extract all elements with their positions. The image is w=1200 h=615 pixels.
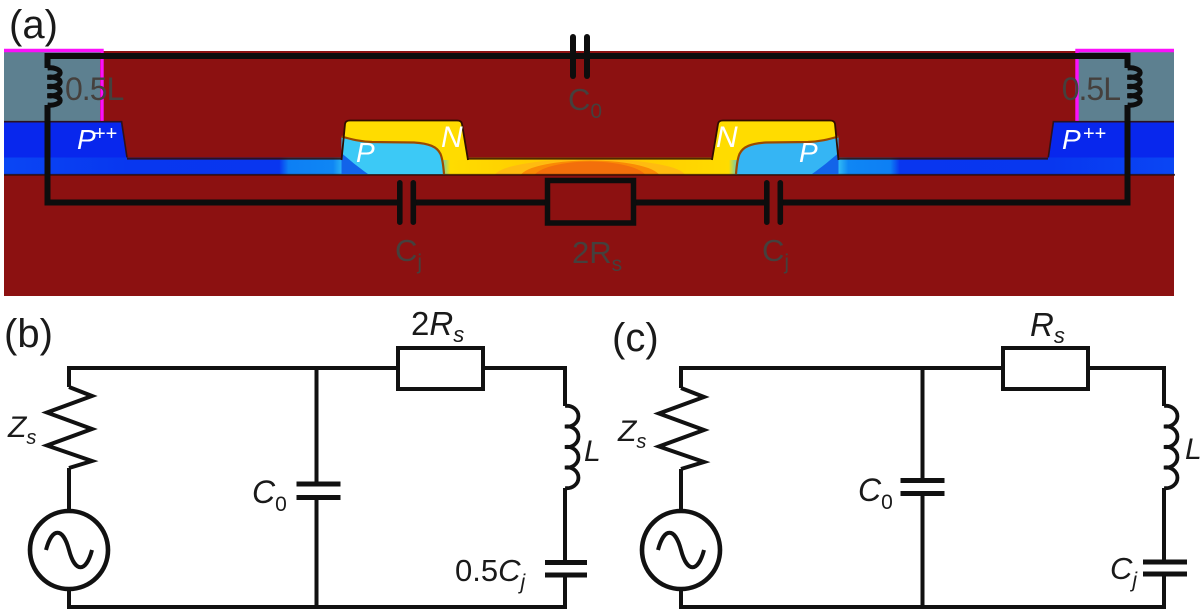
svg-text:(a): (a)	[9, 3, 58, 47]
svg-text:0.5L: 0.5L	[65, 71, 123, 107]
wire: (b) right vertical top	[563, 366, 567, 406]
svg-text:P: P	[799, 137, 818, 168]
resistor 2Rs (b) box	[398, 348, 483, 389]
P++ region right	[1048, 121, 1174, 159]
wire: (b) right vertical bottom	[563, 578, 567, 610]
wire: (b) C0 branch upper	[315, 366, 319, 482]
wire: (b) below source	[67, 589, 71, 609]
wire: (c) right vertical bottom	[1162, 577, 1166, 610]
source AC (b)	[30, 511, 108, 589]
wire: (b) right vertical mid	[563, 488, 567, 560]
P++ region left	[4, 121, 128, 159]
wire: left vertical lower	[45, 105, 51, 205]
wire: (c) below source	[679, 589, 683, 609]
mesa right (rib, mirrored)	[712, 121, 839, 175]
capacitor Cj right (device)	[764, 180, 783, 225]
mesa left (rib)	[342, 121, 469, 175]
source AC (c)	[642, 511, 720, 589]
wire: (c) C0 branch upper	[921, 366, 925, 478]
magenta outline left pad	[4, 51, 102, 122]
svg-text:Cj: Cj	[1110, 551, 1138, 592]
capacitor C0 (device, top)	[570, 34, 590, 79]
wire: (c) bottom bus	[679, 605, 1166, 609]
inductor L (c)	[1164, 406, 1177, 488]
svg-text:(c): (c)	[612, 316, 659, 360]
resistor Rs (c) box	[1003, 348, 1088, 389]
resistor Zs (b) zigzag	[47, 387, 92, 468]
metal pad right (gray)	[1078, 51, 1174, 121]
wire: (c) C0 branch lower	[921, 496, 925, 609]
metal pad left (gray)	[4, 51, 100, 121]
svg-text:C0: C0	[858, 472, 893, 514]
slab bottom boundary line	[4, 174, 1175, 176]
inductor 0.5L right	[1128, 68, 1141, 105]
svg-text:2Rs: 2Rs	[411, 305, 464, 347]
wire: (b) top bus	[67, 366, 567, 370]
svg-text:(b): (b)	[4, 312, 53, 356]
n++ implant orange halo	[495, 159, 685, 197]
svg-text:P: P	[1062, 124, 1081, 155]
svg-text:0.5L: 0.5L	[1062, 71, 1120, 107]
wire: top bus	[45, 53, 1131, 59]
resistor Zs (c) zigzag	[659, 388, 704, 469]
svg-text:++: ++	[1083, 123, 1106, 145]
wire: (c) right vertical mid	[1162, 488, 1166, 560]
svg-text:C0: C0	[252, 474, 287, 516]
magenta outline right pad	[1077, 51, 1174, 122]
capacitor Cj left (device)	[397, 180, 416, 225]
svg-text:0.5Cj: 0.5Cj	[455, 553, 527, 594]
wire: right vertical	[1125, 53, 1131, 68]
wire: bottom bus segments	[45, 200, 400, 206]
svg-text:L: L	[584, 435, 601, 468]
capacitor C0 (c) plates	[901, 478, 945, 496]
wire: right vertical lower	[1125, 105, 1131, 205]
capacitor Cj (c) plates	[1143, 560, 1187, 577]
svg-text:Rs: Rs	[1030, 306, 1065, 348]
circuit overlay (a)	[45, 53, 1141, 205]
device substrate (dark red)	[4, 51, 1174, 296]
inductor 0.5L left	[48, 68, 61, 105]
svg-text:++: ++	[94, 123, 117, 145]
wire: (c) right vertical top	[1162, 366, 1166, 406]
wire: (c) left vertical top	[679, 366, 683, 388]
svg-text:Zs: Zs	[7, 411, 36, 449]
svg-text:N: N	[716, 121, 738, 154]
wire: (b) C0 branch lower	[315, 500, 319, 609]
inductor L (b)	[565, 406, 578, 488]
wire: (b) bottom bus	[67, 605, 567, 609]
capacitor C0 (b) plates	[297, 482, 341, 501]
capacitor 0.5Cj (b) plates	[545, 560, 587, 578]
svg-text:N: N	[441, 121, 463, 154]
wire: (b) above source	[67, 468, 71, 511]
svg-text:Zs: Zs	[617, 415, 646, 453]
resistor 2Rs (device)	[548, 181, 634, 224]
wire: (c) top bus	[679, 366, 1166, 370]
wire: left vertical	[45, 53, 51, 68]
silicon slab with doping gradient	[4, 158, 1174, 176]
slab top boundary line	[127, 158, 1048, 160]
svg-text:P: P	[356, 137, 375, 168]
wire: (c) above source	[679, 469, 683, 511]
wire: (b) left vertical top	[67, 366, 71, 387]
svg-text:L: L	[1185, 433, 1200, 466]
